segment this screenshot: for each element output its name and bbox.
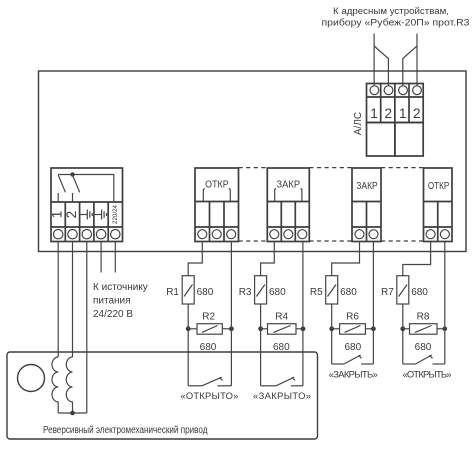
ground symbol terminal 3 xyxy=(81,210,93,220)
wire: ZAKR#1 pin3 down to switch xyxy=(302,242,304,386)
node: R3/R4 junction xyxy=(258,326,263,331)
svg-text:680: 680 xyxy=(273,342,290,353)
svg-text:«ОТКРЫТО»: «ОТКРЫТО» xyxy=(180,390,238,401)
svg-text:К адресным устройствам,: К адресным устройствам, xyxy=(333,6,449,17)
svg-text:R3: R3 xyxy=(239,287,252,298)
node: right junction xyxy=(371,326,376,331)
terminal block ZAKR #1 xyxy=(267,168,309,242)
terminal block ZAKR #2 xyxy=(352,168,381,242)
svg-text:R7: R7 xyxy=(381,287,394,298)
dashed bus line top xyxy=(239,167,424,169)
svg-text:R2: R2 xyxy=(202,312,215,323)
svg-text:R8: R8 xyxy=(417,312,430,323)
svg-text:А/ЛС: А/ЛС xyxy=(353,112,364,135)
wire: relay terminal 3 down to motor common xyxy=(86,242,88,414)
svg-text:220/24: 220/24 xyxy=(112,204,119,223)
svg-text:2: 2 xyxy=(413,106,421,121)
svg-text:ОТКР: ОТКР xyxy=(428,181,450,192)
wire: relay terminal 1 down to motor coil 1 xyxy=(57,242,59,358)
wire: OTKR#1 pin1 down-jog to R1 xyxy=(188,242,202,276)
label bracket right xyxy=(229,188,230,201)
main controller box xyxy=(39,71,467,252)
relay contact blade 2 xyxy=(73,175,80,192)
motor drive box xyxy=(7,352,318,439)
svg-text:R1: R1 xyxy=(166,287,179,298)
inductor coil L2 xyxy=(66,357,72,413)
svg-text:прибору «Рубеж-20П» прот.R3: прибору «Рубеж-20П» прот.R3 xyxy=(322,17,470,28)
wire: R6 to right wire xyxy=(365,328,373,330)
wire: R3 to switch xyxy=(260,304,262,386)
node: R5/R6 junction xyxy=(329,326,334,331)
svg-text:680: 680 xyxy=(200,342,217,353)
wire: ALS branch to terminal 3 xyxy=(403,46,417,86)
wire: ZAKR#2 pin1 down-jog to R5 xyxy=(332,242,360,276)
svg-text:ЗАКР: ЗАКР xyxy=(277,179,301,190)
wire: relay terminal 4 to power source xyxy=(100,242,102,273)
dashed bus line bottom xyxy=(239,240,424,242)
svg-text:24/220 В: 24/220 В xyxy=(93,309,133,320)
svg-text:680: 680 xyxy=(411,287,428,298)
relay contact stub 2 xyxy=(72,193,74,202)
resistor R1 xyxy=(182,276,194,304)
wire: junction to R6 xyxy=(332,328,340,330)
wire: ZAKR#1 pin1 down-jog to R3 xyxy=(261,242,275,276)
svg-text:R5: R5 xyxy=(310,287,323,298)
control switch OTKRYT xyxy=(403,355,445,364)
relay contact stub 1 xyxy=(57,193,59,202)
relay module K1 (power block 220/24) xyxy=(51,168,123,242)
resistor R8 xyxy=(410,324,438,335)
svg-text:К источнику: К источнику xyxy=(93,282,148,293)
wire: R5 to switch xyxy=(331,304,333,364)
node: R7/R8 junction xyxy=(400,326,405,331)
control switch ZAKRYT xyxy=(332,355,374,364)
svg-text:питания: питания xyxy=(93,296,131,307)
wire: ZAKR#2 pin2 down to switch xyxy=(372,242,374,365)
wire: R1 to switch xyxy=(187,304,189,386)
resistor R7 xyxy=(397,276,409,304)
svg-text:Реверсивный электромеханически: Реверсивный электромеханический привод xyxy=(43,425,208,436)
wire: R2 to right wire xyxy=(222,328,231,330)
wire: R7 to switch xyxy=(402,304,404,364)
svg-text:2: 2 xyxy=(384,106,392,121)
node: relay common junction xyxy=(70,172,74,176)
label bracket left xyxy=(275,188,276,201)
wire: junction to R4 xyxy=(261,328,268,330)
svg-text:ЗАКР: ЗАКР xyxy=(356,181,378,192)
node: right junction xyxy=(229,326,234,331)
svg-text:«ОТКРЫТЬ»: «ОТКРЫТЬ» xyxy=(403,368,452,379)
wire: relay terminal 2 down to motor coil 2 xyxy=(72,242,74,358)
motor M (circle) xyxy=(18,365,45,392)
relay internal contacts wire xyxy=(58,175,114,203)
resistor R3 xyxy=(255,276,267,304)
svg-text:680: 680 xyxy=(340,287,357,298)
wire: OTKR#2 pin2 down to switch xyxy=(444,242,446,365)
wire: coil common bar xyxy=(58,412,87,414)
wire: OTKR#1 pin3 down to switch xyxy=(230,242,232,386)
wire: R8 to right wire xyxy=(437,328,445,330)
resistor R6 xyxy=(340,324,366,335)
svg-text:680: 680 xyxy=(344,342,361,353)
svg-text:R6: R6 xyxy=(346,312,359,323)
wire: OTKR#2 pin1 down-jog to R7 xyxy=(403,242,431,276)
svg-text:1: 1 xyxy=(370,106,378,121)
svg-text:680: 680 xyxy=(197,287,214,298)
node: coil common junction xyxy=(70,411,75,416)
wire: R4 to right wire xyxy=(296,328,303,330)
wire: ALS line 1 vertical xyxy=(373,34,375,87)
wire: relay terminal 5 to power source xyxy=(114,242,116,273)
wire: ALS branch to terminal 2 xyxy=(374,46,388,86)
relay contact blade 1 xyxy=(58,175,65,192)
svg-text:R4: R4 xyxy=(275,312,288,323)
terminal block A/LS xyxy=(367,84,424,157)
svg-text:ОТКР: ОТКР xyxy=(205,179,229,190)
label bracket left xyxy=(203,188,204,201)
inductor coil L1 xyxy=(52,357,58,413)
svg-text:«ЗАКРЫТО»: «ЗАКРЫТО» xyxy=(253,390,311,401)
svg-text:680: 680 xyxy=(415,342,432,353)
wire: junction to R2 xyxy=(188,328,197,330)
node: right junction xyxy=(443,327,448,332)
svg-text:2: 2 xyxy=(64,211,79,219)
limit switch ZAKRYTO xyxy=(261,377,303,386)
node: R1/R2 junction xyxy=(186,326,191,331)
svg-text:680: 680 xyxy=(269,287,286,298)
node: right junction xyxy=(301,326,306,331)
svg-text:1: 1 xyxy=(399,106,407,121)
wire: ALS line 2 vertical xyxy=(416,34,418,87)
svg-text:1: 1 xyxy=(50,211,65,219)
resistor R5 xyxy=(326,276,338,304)
svg-text:«ЗАКРЫТЬ»: «ЗАКРЫТЬ» xyxy=(329,368,378,379)
label bracket right xyxy=(301,188,302,201)
terminal block OTKR #2 xyxy=(424,168,453,242)
ground symbol terminal 4 xyxy=(95,210,107,220)
terminal block OTKR #1 xyxy=(195,168,239,242)
resistor R2 xyxy=(197,324,222,335)
limit switch OTKRYTO xyxy=(188,377,231,386)
resistor R4 xyxy=(268,324,297,335)
wire: junction to R8 xyxy=(403,328,410,330)
